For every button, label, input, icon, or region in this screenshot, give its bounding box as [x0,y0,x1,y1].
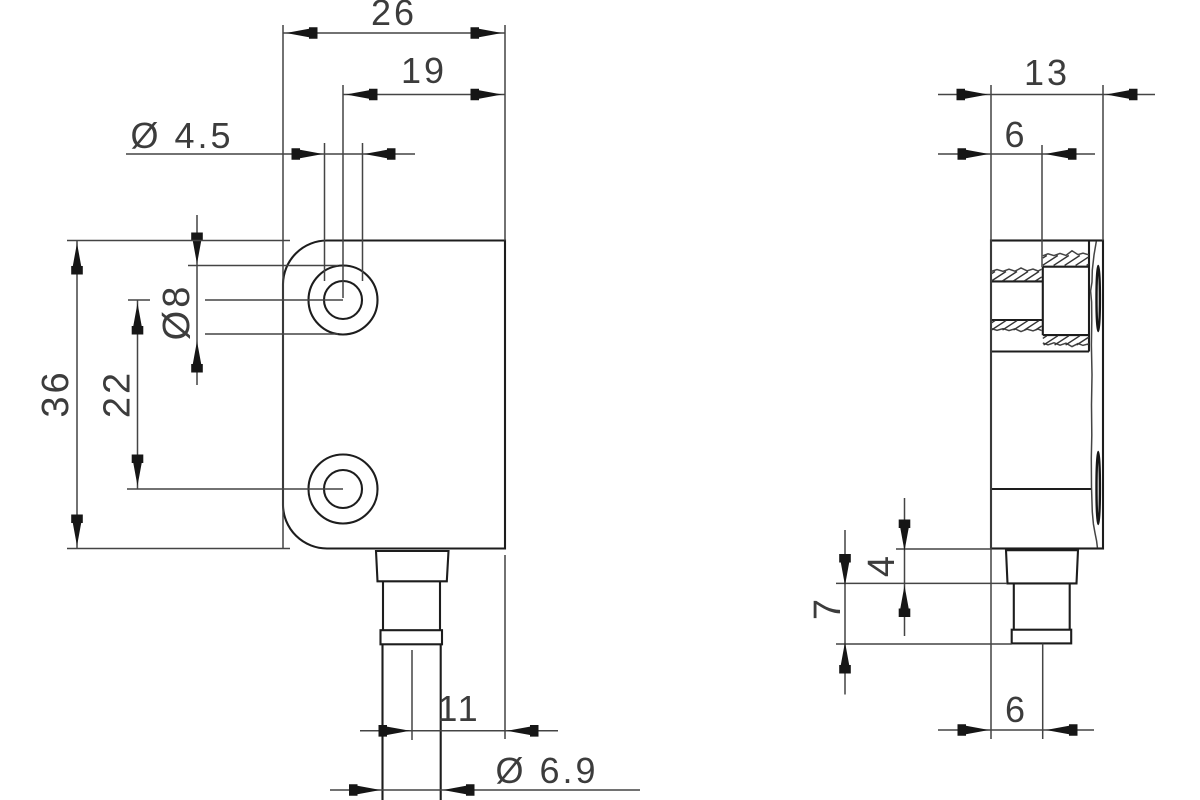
side view: connector stage 1 [1006,550,1078,583]
svg-text:26: 26 [371,0,417,33]
front view: cable edges [383,644,441,800]
side view: section hatching upper-right band with break line [1043,251,1089,266]
side view: counterbore step box [1043,267,1089,335]
side view: upper lens/optics profile [1097,266,1100,331]
dimension 11 (cable axis to right edge) [360,555,558,740]
dimension 6 (cable axis to front face, bottom) [938,644,1094,740]
front view: bottom mounting hole outer circle (counterbore Ø8) [309,455,378,524]
side view: body outline [991,241,1103,549]
svg-text:36: 36 [35,369,77,417]
svg-text:6: 6 [1005,689,1028,730]
dimension Ø8 (counterbore diameter, vertical) [156,215,338,385]
dimension 36 (front overall height) [35,241,290,549]
front view: connector stage 1 [376,551,449,581]
svg-text:11: 11 [437,688,480,729]
side view: section hatching upper-left band with break line [991,268,1043,281]
svg-text:7: 7 [807,596,849,620]
svg-text:19: 19 [401,50,447,91]
svg-text:4: 4 [861,553,903,577]
front view: connector stage 2 [383,581,440,630]
svg-text:6: 6 [1004,114,1027,155]
dimension 4 (stage-1 height) [836,498,1007,636]
dimension 6 (counterbore depth, top) [938,114,1095,267]
svg-text:Ø 4.5: Ø 4.5 [130,115,233,156]
svg-text:Ø 6.9: Ø 6.9 [495,750,598,791]
svg-text:13: 13 [1024,52,1070,93]
front view: connector collar [381,630,443,644]
dimension 26 (front overall width) [283,0,505,549]
front view: top mounting hole inner circle (Ø4.5) [324,281,362,319]
front view: sensor body outline [283,241,505,549]
dimension 19 (hole centre from right) [343,50,505,298]
side view: section boundary lines [991,241,1091,490]
side view: section hatching lower-left band with break line [991,320,1043,332]
dimension Ø6.9 (cable diameter) [330,750,640,796]
side view: lower lens/optics profile [1097,452,1100,524]
svg-text:Ø8: Ø8 [156,284,198,341]
side view: curved front face silhouette [1091,242,1098,548]
dimension 13 (side overall depth) [938,52,1155,739]
svg-text:22: 22 [97,370,139,418]
side view: connector collar [1012,630,1071,644]
dimension 22 (hole centre distance) [97,300,344,489]
front view: top mounting hole outer circle (counterbore Ø8) [309,266,378,335]
dimension Ø4.5 (inner hole diameter) [126,115,415,281]
dimension 7 (stage-2 + collar height) [807,530,1012,695]
side view: section hatching lower-right band with break line [1043,336,1089,347]
side view: connector stage 2 [1014,583,1070,629]
front view: bottom mounting hole inner circle (Ø4.5) [324,470,362,508]
